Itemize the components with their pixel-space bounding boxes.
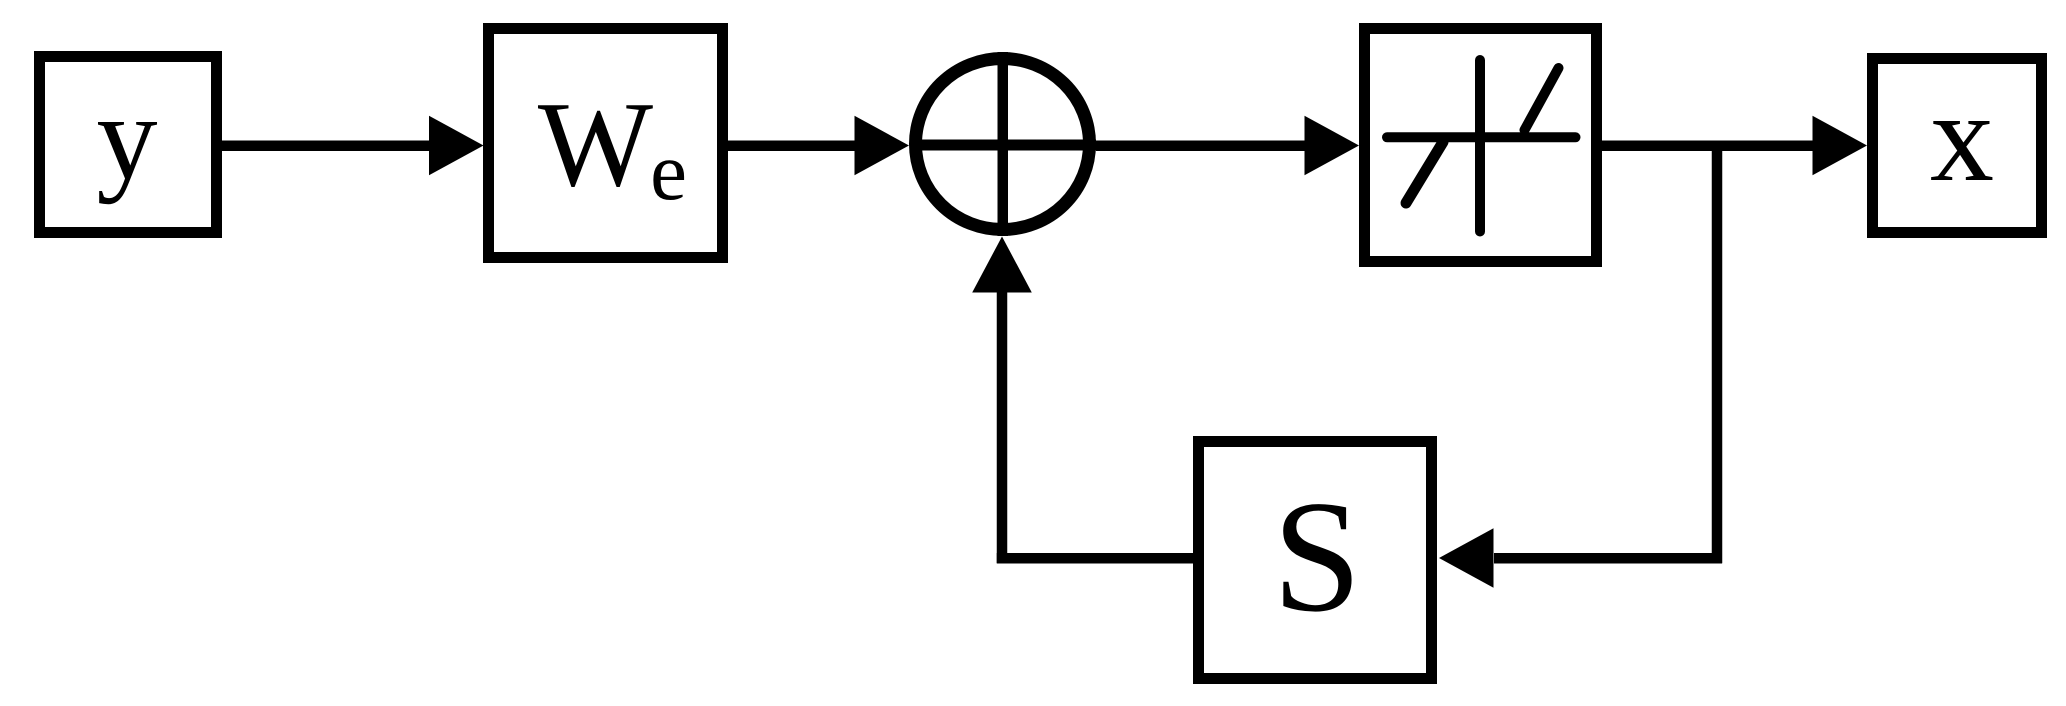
arrowhead into saturation [1305,116,1360,176]
wire summing junction to saturation [1096,141,1308,152]
svg-text:W: W [538,77,653,212]
wire S to riser [997,553,1193,564]
block x [1873,59,2042,233]
arrowhead into summing junction bottom [972,237,1032,293]
block We [489,29,723,258]
feedback wire to S [1494,553,1722,564]
svg-text:S: S [1273,467,1362,645]
svg-text:x: x [1930,66,1994,208]
feedback branch vertical wire [1712,145,1723,563]
block S [1199,442,1432,679]
wire saturation to x [1602,141,1815,152]
feedback riser wire [997,292,1008,563]
saturation block [1365,29,1597,262]
arrowhead into x [1813,116,1868,176]
wire We to summing junction [728,141,858,152]
arrowhead into summing junction [855,116,910,176]
plus vertical bar [998,52,1009,236]
plus horizontal bar [910,140,1096,151]
arrowhead into S [1439,528,1494,588]
arrowhead into We [429,116,484,176]
summing junction circle [916,59,1090,230]
svg-text:y: y [97,70,158,205]
block y [40,57,217,233]
wire y to We [222,141,434,152]
svg-text:e: e [650,125,687,217]
